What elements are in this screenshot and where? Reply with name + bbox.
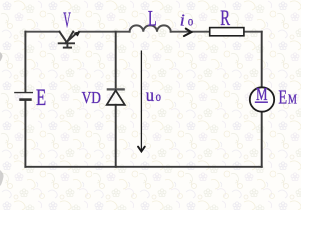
motor M underline [255, 101, 268, 103]
voltage uo arrow line [140, 51, 142, 151]
svg-text:L: L [148, 5, 157, 30]
svg-text:o: o [188, 14, 193, 29]
svg-text:V: V [63, 8, 71, 32]
wire diode branch lower [115, 105, 117, 167]
wire left side lower (battery to corner) [24, 100, 26, 167]
wire top middle (switch to inductor, through diode node) [79, 31, 130, 33]
wire right side lower (motor to corner) [261, 112, 263, 167]
inductor L winding [130, 25, 171, 31]
diode VD [107, 89, 125, 104]
switch V arrowhead [73, 31, 80, 36]
svg-text:M: M [288, 93, 297, 108]
wire bottom [25, 166, 261, 168]
wire diode branch upper [115, 32, 117, 90]
svg-text:E: E [278, 87, 287, 109]
wire top-left segment [25, 31, 59, 33]
wire right side upper (corner to motor) [261, 32, 263, 88]
voltage uo arrowhead [138, 147, 145, 152]
wire left side upper (corner to battery) [24, 32, 26, 92]
current io arrowhead on wire [184, 29, 191, 36]
svg-text:R: R [220, 5, 230, 30]
svg-text:E: E [36, 85, 46, 110]
resistor R body [210, 28, 244, 36]
switch V (power device) [59, 32, 77, 48]
svg-text:u: u [146, 85, 155, 105]
svg-text:M: M [256, 84, 268, 104]
svg-text:VD: VD [82, 88, 101, 107]
svg-text:i: i [180, 11, 185, 30]
motor M circle [250, 87, 274, 111]
wire inductor to resistor [171, 31, 210, 33]
svg-text:o: o [156, 89, 161, 104]
battery E plates [14, 93, 33, 100]
wire resistor to top-right corner [244, 31, 262, 33]
